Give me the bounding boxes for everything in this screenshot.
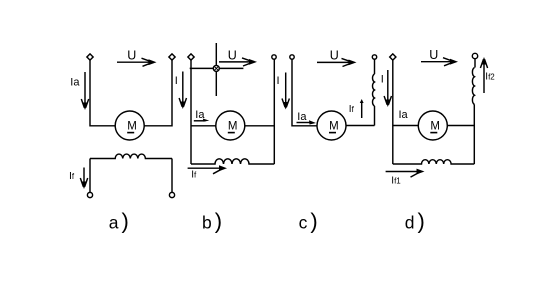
motor M (b) xyxy=(216,111,245,140)
svg-text:If: If xyxy=(191,170,197,181)
wire c right top xyxy=(374,59,376,74)
field winding (a) xyxy=(90,154,172,158)
svg-text:U: U xyxy=(127,48,136,62)
arrow If (c) xyxy=(360,99,364,118)
series field winding (b bottom) xyxy=(191,159,274,164)
svg-text:Ia: Ia xyxy=(297,111,307,123)
wire b motor branch left xyxy=(191,125,216,127)
svg-text:M: M xyxy=(228,120,238,132)
arrow U (b) xyxy=(219,58,257,66)
terminal b top-left xyxy=(188,54,194,60)
arrow Ia (a) xyxy=(81,72,88,110)
wire c right bottom xyxy=(374,106,376,126)
wire b left xyxy=(190,59,192,164)
wire d left xyxy=(392,59,394,164)
wire d motor branch right xyxy=(447,125,474,127)
wire a field left xyxy=(89,159,91,193)
arrow I (b/c) xyxy=(282,73,289,110)
series field winding (c right) xyxy=(373,74,375,106)
wire d right top xyxy=(474,59,476,68)
shunt field winding (d right) xyxy=(472,68,474,105)
svg-text:M: M xyxy=(430,120,440,132)
svg-text:If: If xyxy=(349,104,355,115)
terminal a top-right xyxy=(169,54,175,60)
arrow If2 (d) xyxy=(480,57,487,93)
motor M (a) xyxy=(115,111,144,140)
svg-text:U: U xyxy=(429,48,438,62)
arrow If1 (d) xyxy=(386,169,425,178)
svg-text:I: I xyxy=(277,75,280,87)
motor M (d) xyxy=(418,111,447,140)
wire b motor branch right xyxy=(245,125,274,127)
wire a field right xyxy=(171,159,173,193)
terminal a top-left xyxy=(87,54,93,60)
crosshair handle (b) xyxy=(190,43,244,96)
arrow U (c) xyxy=(317,58,357,66)
arrow U (d) xyxy=(421,58,458,66)
terminal d top-right xyxy=(472,53,477,58)
svg-text:I: I xyxy=(175,75,178,87)
svg-text:M: M xyxy=(127,120,137,132)
terminal d top-left xyxy=(390,54,396,60)
arrow If (a) xyxy=(80,168,87,190)
svg-text:I: I xyxy=(381,74,384,86)
svg-text:M: M xyxy=(329,120,339,132)
svg-text:If1: If1 xyxy=(391,176,401,187)
series field winding (d bottom) xyxy=(393,160,475,164)
wire d right bottom xyxy=(473,105,475,165)
arrow Ia (c) xyxy=(297,120,317,124)
svg-text:Ia: Ia xyxy=(70,76,80,88)
wire d motor branch left xyxy=(393,125,419,127)
arrow U (a) xyxy=(117,58,157,66)
arrow Ia (b) xyxy=(194,119,210,122)
arrow I (a/b) xyxy=(179,72,186,110)
terminal a bottom-right xyxy=(169,192,174,197)
arrow If (b) xyxy=(188,165,227,174)
wire a left xyxy=(90,59,115,126)
wire c left xyxy=(292,59,317,126)
wire c motor branch right xyxy=(346,125,375,127)
arrow I (c/d) xyxy=(384,70,391,107)
terminal b top-right xyxy=(272,55,276,59)
wire a right xyxy=(144,59,172,126)
terminal c top-left xyxy=(290,55,294,59)
svg-text:If2: If2 xyxy=(485,71,495,82)
svg-text:If: If xyxy=(69,170,75,182)
svg-text:U: U xyxy=(330,48,339,62)
wire b right xyxy=(273,59,275,164)
svg-text:U: U xyxy=(228,49,237,63)
motor M (c) xyxy=(317,111,346,140)
svg-text:Ia: Ia xyxy=(399,109,409,121)
terminal a bottom-left xyxy=(87,192,92,197)
terminal c top-right xyxy=(372,55,376,59)
